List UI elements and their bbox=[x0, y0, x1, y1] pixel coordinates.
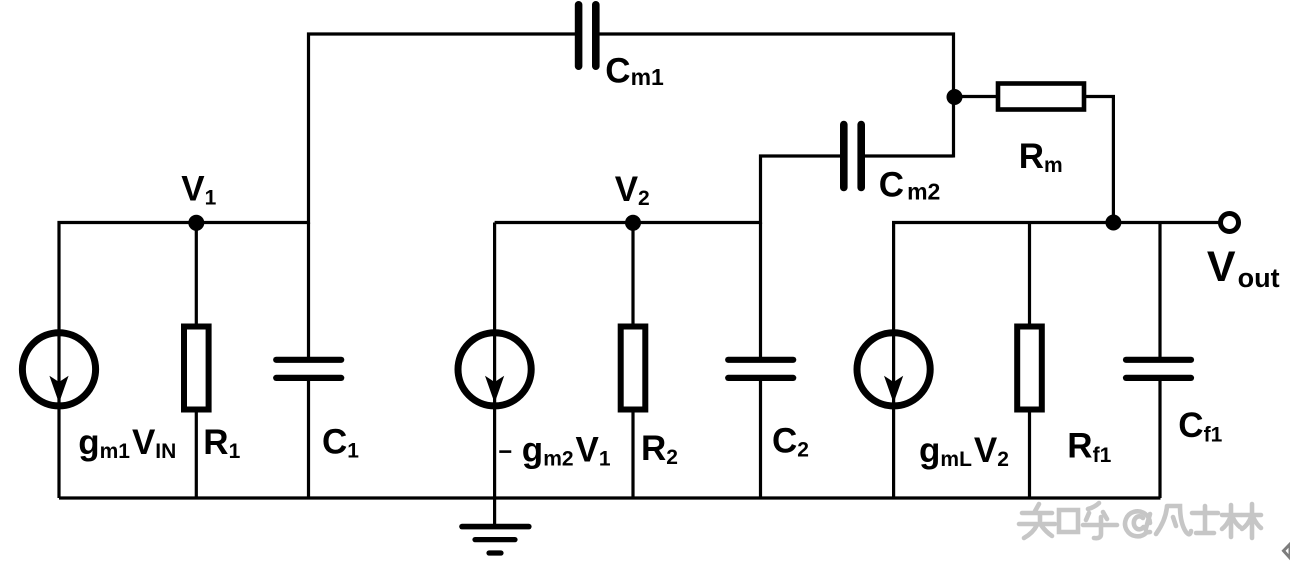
capacitor Cm2 bbox=[844, 125, 861, 188]
svg-text:V2: V2 bbox=[615, 170, 650, 210]
capacitor Cm1 bbox=[579, 5, 596, 66]
node V1 junction dot bbox=[188, 215, 204, 231]
svg-text:gm1VIN: gm1VIN bbox=[78, 423, 176, 463]
wire: ground rail bbox=[59, 496, 1161, 499]
svg-text:gm2V1: gm2V1 bbox=[522, 431, 611, 471]
current source GL arrowhead bbox=[884, 376, 903, 403]
wire: ground stub below rail bbox=[493, 498, 496, 526]
svg-text:Cm1: Cm1 bbox=[605, 52, 664, 91]
svg-text:Cf1: Cf1 bbox=[1178, 406, 1222, 447]
wire: gmL branch bbox=[892, 223, 895, 499]
capacitor C1 bbox=[276, 360, 341, 378]
current source G1 arrowhead bbox=[49, 376, 68, 403]
current source G2 circle bbox=[458, 333, 531, 406]
svg-text:gmLV2: gmLV2 bbox=[919, 431, 1009, 471]
svg-text:Rm: Rm bbox=[1019, 137, 1063, 177]
wire: C1 branch lower lead bbox=[307, 381, 310, 499]
resistor Rm bbox=[998, 84, 1084, 110]
svg-text:R1: R1 bbox=[203, 423, 240, 463]
wire: R1 branch bbox=[195, 223, 198, 499]
wire: Rf1 branch bbox=[1028, 223, 1031, 499]
Vout open terminal bbox=[1221, 214, 1239, 232]
wire: Cf1 branch lower lead bbox=[1158, 381, 1161, 499]
svg-text:C2: C2 bbox=[772, 422, 809, 462]
wire: V1 row rail and left branch down to ground rail bbox=[59, 223, 309, 499]
capacitor Cf1 bbox=[1126, 360, 1191, 378]
wire: junction node to Rm left lead bbox=[954, 95, 997, 98]
ground bbox=[462, 527, 529, 553]
wire: V2 row rail bbox=[495, 221, 761, 224]
node: Cm1/Cm2/Rm junction dot bbox=[947, 89, 963, 105]
watermark: zhihu @fanshilin (drawn strokes, light gray) bbox=[1019, 503, 1261, 538]
wire: gm2 branch bbox=[493, 223, 496, 499]
wire: Cf1 branch upper lead bbox=[1158, 223, 1161, 358]
wire: Cm2 right lead to junction column bbox=[865, 154, 954, 157]
svg-text:−: − bbox=[498, 439, 512, 466]
svg-text:Rf1: Rf1 bbox=[1067, 427, 1111, 468]
svg-text:R2: R2 bbox=[641, 429, 678, 469]
wire: output row rail to Vout terminal bbox=[894, 223, 1219, 225]
wire: Rm right lead down to output rail bbox=[1085, 97, 1113, 224]
svg-text:C1: C1 bbox=[322, 423, 359, 463]
current source GL circle bbox=[857, 333, 930, 406]
cursor arrow bottom-right bbox=[1284, 544, 1290, 558]
capacitor C2 bbox=[728, 360, 793, 378]
node: output junction dot bbox=[1105, 215, 1121, 231]
node V2 junction dot bbox=[625, 215, 641, 231]
current source G2 arrowhead bbox=[485, 376, 504, 403]
resistor Rf1 bbox=[1017, 327, 1042, 410]
wire: C2 branch lower lead bbox=[759, 381, 762, 499]
wire: C1 branch upper lead bbox=[307, 223, 310, 358]
wire: top wire from Cm1 right plate to junction drop bbox=[599, 34, 954, 158]
wire: vertical riser from V1 rail up and top wire to Cm1 left plate bbox=[309, 34, 576, 224]
wire: R2 branch bbox=[631, 223, 634, 499]
svg-text:Vout: Vout bbox=[1207, 243, 1280, 293]
wire: Cm2 left lead and drop to V2 rail bbox=[761, 156, 842, 224]
resistor R1 bbox=[184, 327, 209, 410]
svg-text:Cm2: Cm2 bbox=[879, 166, 941, 205]
svg-text:V1: V1 bbox=[181, 170, 216, 210]
current source G1 circle bbox=[22, 333, 95, 406]
wire: C2 branch upper lead bbox=[759, 223, 762, 358]
resistor R2 bbox=[621, 327, 646, 410]
